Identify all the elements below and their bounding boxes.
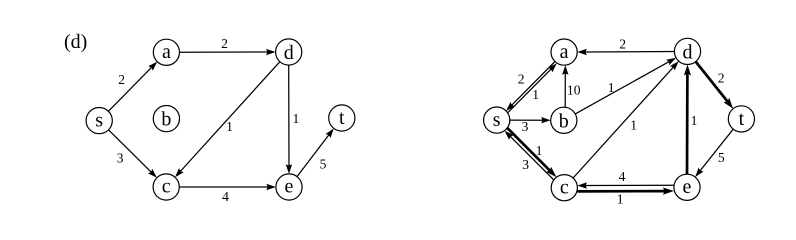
left edge d-c xyxy=(175,62,280,178)
right edge a-s xyxy=(506,62,555,111)
right edge b-a xyxy=(562,65,568,107)
right edge b-d xyxy=(575,58,676,114)
svg-text:4: 4 xyxy=(222,189,229,204)
right node e xyxy=(674,174,700,200)
svg-text:1: 1 xyxy=(630,117,637,132)
svg-text:c: c xyxy=(162,176,171,198)
svg-text:d: d xyxy=(284,42,294,64)
svg-text:2: 2 xyxy=(518,72,525,87)
svg-text:5: 5 xyxy=(320,157,327,172)
right edge c-d xyxy=(573,61,679,178)
right thick edge s-c xyxy=(507,128,556,177)
svg-text:1: 1 xyxy=(691,113,698,128)
right node a xyxy=(551,39,577,65)
svg-text:s: s xyxy=(493,109,501,131)
right edge s-a xyxy=(508,63,557,112)
svg-text:1: 1 xyxy=(226,119,233,134)
left node d xyxy=(276,39,302,65)
svg-text:2: 2 xyxy=(221,36,228,51)
left node s xyxy=(86,108,112,134)
svg-text:d: d xyxy=(683,41,693,63)
svg-text:1: 1 xyxy=(532,87,539,102)
svg-text:s: s xyxy=(95,109,103,131)
left node b xyxy=(153,106,179,132)
svg-text:1: 1 xyxy=(608,80,615,95)
right edge s-b xyxy=(510,117,551,123)
svg-text:4: 4 xyxy=(619,169,626,184)
right edge d-a xyxy=(577,49,674,55)
svg-text:e: e xyxy=(683,176,692,198)
left edge a-d xyxy=(180,49,276,55)
right thick edge d-t xyxy=(696,62,734,109)
right node t xyxy=(728,106,754,132)
svg-text:2: 2 xyxy=(118,72,125,87)
svg-text:a: a xyxy=(162,41,171,63)
right node b xyxy=(551,107,577,133)
right thick edge e-d xyxy=(684,65,691,175)
svg-text:t: t xyxy=(739,108,745,130)
left node a xyxy=(153,39,179,65)
left edge e-t xyxy=(297,128,334,176)
svg-text:5: 5 xyxy=(718,150,725,165)
svg-text:(d): (d) xyxy=(64,31,87,53)
left edge s-c xyxy=(109,130,157,178)
left node c xyxy=(153,174,179,200)
svg-text:2: 2 xyxy=(718,71,725,86)
svg-text:b: b xyxy=(559,110,569,132)
right node d xyxy=(674,38,700,64)
left edge s-a xyxy=(108,62,157,112)
svg-text:1: 1 xyxy=(536,143,543,158)
right node s xyxy=(484,107,510,133)
svg-text:b: b xyxy=(161,109,171,131)
svg-text:1: 1 xyxy=(617,191,624,206)
right edge c-s xyxy=(505,131,554,180)
svg-text:3: 3 xyxy=(117,150,124,165)
left edge c-e xyxy=(179,184,276,190)
svg-text:c: c xyxy=(560,176,569,198)
svg-text:3: 3 xyxy=(522,119,529,134)
left node e xyxy=(276,174,302,200)
svg-text:2: 2 xyxy=(619,37,626,52)
right node c xyxy=(551,175,577,201)
svg-text:3: 3 xyxy=(522,157,529,172)
left edge d-e xyxy=(286,65,292,174)
right edge t-e xyxy=(695,129,733,177)
left node t xyxy=(329,105,355,131)
svg-text:10: 10 xyxy=(567,83,581,98)
svg-text:e: e xyxy=(285,176,294,198)
right edge e-c xyxy=(577,182,674,188)
svg-text:1: 1 xyxy=(293,111,300,126)
svg-text:a: a xyxy=(560,41,569,63)
svg-text:t: t xyxy=(339,107,345,129)
right thick edge c-e xyxy=(577,188,674,195)
